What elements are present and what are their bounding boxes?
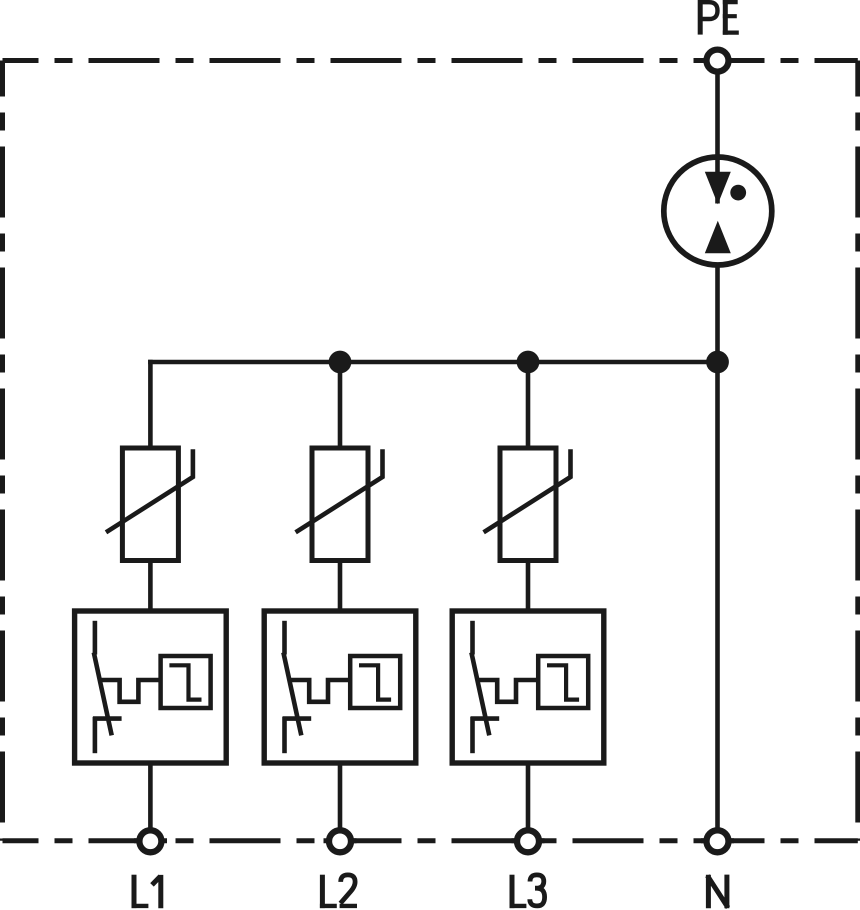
label L2 xyxy=(320,875,357,908)
wire: varistor to disconnector L3 branch xyxy=(526,559,531,614)
thermal disconnector with status indicator, L1 branch xyxy=(75,611,227,763)
terminal L1 xyxy=(139,830,161,852)
wire: PE terminal to spark gap xyxy=(715,62,720,204)
wire: disconnector to terminal L1 xyxy=(148,761,153,841)
terminal PE xyxy=(707,50,729,72)
label N (neutral terminal) xyxy=(707,875,728,909)
wire: disconnector to terminal L3 xyxy=(526,761,531,841)
varistor L1 branch (MOV) xyxy=(106,448,193,561)
varistor L2 branch (MOV) xyxy=(296,448,383,561)
terminal L2 xyxy=(329,830,351,852)
junction: bus / N conductor xyxy=(706,351,729,374)
junction: bus / L3 branch xyxy=(517,351,540,374)
terminal L3 xyxy=(517,830,539,852)
wire: varistor to disconnector L2 branch xyxy=(338,559,343,614)
varistor L3 branch (MOV) xyxy=(484,448,571,561)
label PE (protective earth terminal) xyxy=(700,0,739,35)
wire: bus to varistor L2 branch xyxy=(338,360,343,450)
wire: horizontal bus connecting L1 L2 L3 to spark gap node xyxy=(150,362,717,364)
wire: varistor to disconnector L1 branch xyxy=(148,559,153,614)
thermal disconnector with status indicator, L2 branch xyxy=(264,611,416,763)
label L3 xyxy=(510,875,545,908)
wire: bus to varistor L3 branch xyxy=(526,360,531,450)
wire: bus to varistor L1 branch xyxy=(148,360,153,450)
wire: disconnector to terminal L2 xyxy=(338,761,343,841)
junction: bus / L2 branch xyxy=(329,351,352,374)
spark gap arrester N-PE (circle with opposing arrows) xyxy=(664,157,772,265)
thermal disconnector with status indicator, L3 branch xyxy=(452,611,604,763)
wire: spark gap to N terminal (N conductor) xyxy=(715,221,720,841)
terminal N xyxy=(707,830,729,852)
label L1 xyxy=(132,875,161,909)
